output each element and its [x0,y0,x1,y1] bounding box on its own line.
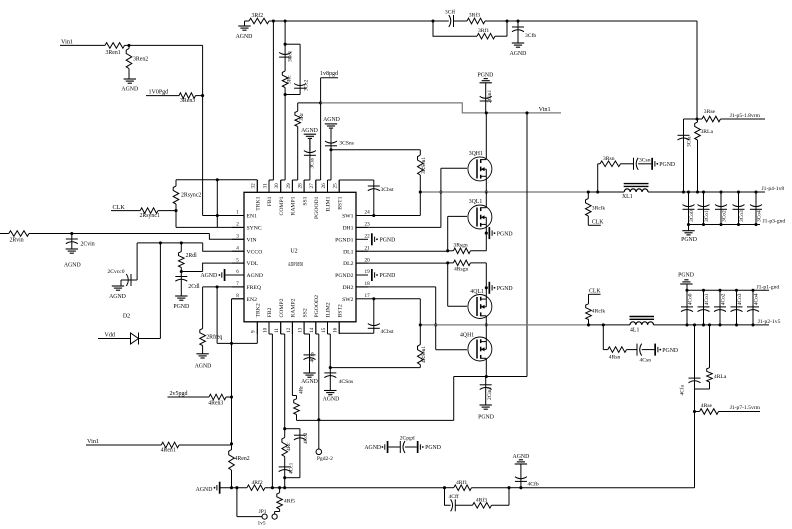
svg-text:3Cc1: 3Cc1 [288,50,294,62]
svg-text:BST1: BST1 [337,196,343,209]
svg-text:4Co1: 4Co1 [704,293,710,305]
ground AGND (3CSns) [323,117,340,139]
svg-text:SW1: SW1 [342,214,354,220]
net label 1V0Pgd [146,90,179,96]
node FB2 riser tap [271,486,274,489]
ground PGND (3Csn) [651,158,675,170]
capacitor 2Cvin [66,234,95,250]
wire output rail 1v8 [648,191,765,193]
wire FB2 rail right [521,487,695,489]
ground AGND (3Rf2) [236,21,253,40]
resistor 4Rsgn [448,260,487,272]
svg-text:J1-p1-gnd: J1-p1-gnd [757,284,780,290]
svg-text:3Rf2: 3Rf2 [252,12,264,19]
node 3Ren3-EN1 [201,94,204,97]
resistor 3Rse [697,109,765,122]
capacitor 4Cff [445,488,473,512]
node EN2 lower [230,442,233,445]
wire DH2 gate [356,287,467,350]
capacitor 4Co0 [681,289,693,327]
svg-text:AGND: AGND [121,87,138,93]
svg-text:10: 10 [262,327,268,333]
svg-text:EN2: EN2 [247,297,258,303]
ground AGND (4Cfb) [513,454,530,464]
svg-text:PGND: PGND [173,304,189,310]
svg-text:PGND: PGND [497,286,513,292]
svg-text:4Cc1: 4Cc1 [288,462,294,474]
svg-text:PGND: PGND [681,237,697,243]
svg-text:3Co1: 3Co1 [704,210,710,222]
wire SW1 line (gray) [420,191,588,193]
node ILIM1 junction [328,148,333,192]
node QL1 PGND tap [485,232,488,235]
ground PGND (2Cdl) [173,296,189,310]
node Vin-x527 [525,111,528,114]
svg-text:2Cin2: 2Cin2 [487,387,493,400]
wire PGOOD1 [316,78,321,193]
svg-text:AGND: AGND [510,51,527,57]
ground AGND (2Cvin) [64,249,81,269]
svg-text:FB1: FB1 [267,196,273,206]
wire FREQ [203,286,244,288]
net label J1-p7-1.5vrm [730,405,761,411]
svg-text:3Rr: 3Rr [299,113,305,121]
svg-text:16: 16 [333,327,339,333]
node 4RLa rail tap [708,323,711,326]
svg-text:DL2: DL2 [343,261,354,267]
ground PGND (output ch1) [681,225,697,243]
net label J1-p5-1.8vrm [730,113,761,119]
resistor 4Rf1 [454,479,509,490]
net label CLK ch1 [592,219,604,225]
svg-text:3Ren2: 3Ren2 [133,56,148,62]
svg-text:27: 27 [309,183,315,189]
svg-text:2Rvin: 2Rvin [10,238,24,244]
svg-text:PGND: PGND [380,238,396,244]
op-amp U2 ADP1850 controller IC [232,180,370,334]
svg-text:3Co2: 3Co2 [721,210,727,222]
svg-text:23: 23 [365,222,371,228]
net label Vdd [98,332,131,338]
ground AGND (3Cfb) [510,43,527,57]
svg-text:24: 24 [365,210,371,216]
svg-text:20: 20 [365,257,371,263]
svg-text:3Co0: 3Co0 [689,210,695,222]
svg-text:PGND: PGND [659,162,675,168]
node snubber1 tap [596,190,599,193]
capacitor 3Co0 [683,190,695,226]
capacitor 3Cff [445,9,467,27]
node snubber2 tap [602,323,605,326]
svg-text:3RLa: 3RLa [701,129,714,135]
wire SW2 pin link [368,299,420,325]
svg-text:5: 5 [236,257,239,263]
svg-text:SS1: SS1 [302,196,308,205]
net label Vin1 [60,39,105,46]
svg-text:3Cfb: 3Cfb [525,32,536,39]
node 2Cin2 tap [485,375,488,378]
node Vin-2Cin1 [485,111,488,114]
node JP1 tap [235,486,238,489]
ground PGND (QL2) [489,282,513,294]
wire FB2 rail [265,487,445,489]
svg-text:FREQ: FREQ [247,285,262,291]
node 4Ren2 bottom [230,486,233,489]
wire VCCO rail [137,243,244,251]
svg-text:SYNC: SYNC [247,226,262,232]
capacitor 3Css [304,139,316,192]
svg-text:DL1: DL1 [343,249,354,255]
svg-text:3: 3 [236,234,239,240]
node 4Cfb tap [519,486,522,489]
node VDL junction [180,270,183,273]
node DL2 junction [446,261,449,264]
net label 2v5pgd [168,391,210,397]
capacitor 4Cbst [339,299,394,335]
wire Vin rail (gray) [321,103,561,113]
net label Vin1 rail [539,106,551,113]
svg-text:J1-p7-1.5vrm: J1-p7-1.5vrm [730,405,761,411]
svg-text:PGND2: PGND2 [335,273,353,279]
wire remote sense top [518,21,697,119]
svg-text:4Cff: 4Cff [449,493,459,500]
resistor 4RLa [707,325,727,389]
svg-text:COMP1: COMP1 [279,196,285,215]
capacitor 3Co1 [698,190,710,226]
svg-text:ILIM1: ILIM1 [326,196,332,211]
wire 4Cfa-4RLa link [695,389,710,412]
wire COMP1 [281,95,285,193]
svg-text:3Rclk: 3Rclk [592,205,606,211]
svg-text:1v5: 1v5 [257,520,265,526]
node SW2 node [485,323,488,326]
svg-text:17: 17 [365,293,371,299]
svg-text:AGND: AGND [513,454,530,460]
resistor 4Rse [695,403,761,414]
svg-text:26: 26 [321,183,327,189]
wire QH1 source [485,176,487,192]
svg-text:ILIM2: ILIM2 [326,302,332,317]
capacitor 3Cfa [678,119,698,192]
svg-text:3RSen1: 3RSen1 [421,157,427,174]
ground AGND (2Cvcc0) [109,286,126,300]
svg-text:PGND: PGND [425,445,441,451]
svg-text:6: 6 [236,269,239,275]
svg-text:7: 7 [236,281,239,287]
svg-text:4Cfa: 4Cfa [678,384,685,395]
ground AGND (4CSns) [323,391,340,403]
svg-text:PGND1: PGND1 [335,237,353,243]
node comp top junction [284,43,287,46]
capacitor 3Cc1 [279,44,294,71]
svg-text:AGND: AGND [236,34,253,40]
resistor 3RSen1 [418,150,427,192]
wire SW1 output [588,191,624,193]
svg-text:FB2: FB2 [267,308,273,318]
svg-text:8: 8 [236,293,239,299]
net label J1-p2-1v5 [758,319,781,325]
resistor 4Rf3 [473,488,510,508]
wire input rail left [0,233,9,235]
svg-text:2Cin1: 2Cin1 [487,90,493,103]
capacitor 4Co1 [698,289,710,327]
svg-text:PGND: PGND [678,273,694,279]
wire QL1 drain [485,192,487,208]
svg-text:9: 9 [251,330,257,333]
wire SW2 output [589,324,631,326]
ground PGND (pin22) [371,233,395,245]
svg-text:AGND: AGND [109,294,126,300]
svg-text:4Co0: 4Co0 [687,293,693,305]
resistor 4Rf5 [275,486,296,514]
svg-text:4Cbst: 4Cbst [381,329,395,335]
resistor 3Rsn [598,156,621,192]
capacitor 2Cin2 [480,377,493,406]
wire QH2 drain link [485,358,487,376]
transistor Q1 (3QH1) [468,151,492,181]
svg-text:U2: U2 [290,248,297,254]
svg-text:3Cbst: 3Cbst [381,187,395,193]
wire QH1 drain [485,113,487,160]
svg-text:19: 19 [365,269,371,275]
node PGOOD2 junction [317,418,320,449]
svg-text:4QL1: 4QL1 [470,289,484,295]
transistor Q4 (4QH1) [460,332,492,361]
capacitor 4Css [304,322,316,373]
svg-text:4Rsgn: 4Rsgn [454,266,469,272]
wire ILIM1 sense [331,149,420,151]
node EN2-TRK2 [230,342,233,345]
svg-text:PGOOD1: PGOOD1 [314,196,320,219]
svg-text:4Ren1: 4Ren1 [161,447,176,453]
svg-text:Vin1: Vin1 [87,438,99,445]
node 3Rclk tap [587,190,590,193]
wire ILIM2 sense [330,367,420,369]
node comp2 bottom junction [283,476,286,488]
svg-text:Vin1: Vin1 [539,106,551,113]
wire Vin drop [526,113,528,377]
svg-text:PGND: PGND [662,348,678,354]
svg-text:4RSen1: 4RSen1 [421,346,427,363]
resistor 3Rsgn [448,242,487,253]
wire SW1 pin link [368,192,420,216]
capacitor 4Cc1 [279,457,295,478]
svg-text:3Cff: 3Cff [445,9,455,16]
capacitor 3CSns [325,139,354,149]
svg-text:4Cfb: 4Cfb [528,480,539,487]
capacitor 3Cfb [512,21,536,43]
node 3Cfa rail tap [682,190,685,193]
resistor 4Ren3 [208,394,231,406]
capacitor 4Co3 [731,289,743,327]
svg-text:2Rdl: 2Rdl [186,253,198,259]
resistor 2Rdl [179,243,198,272]
svg-text:AGND: AGND [323,397,340,403]
svg-text:AGND: AGND [323,117,340,123]
capacitor 4Cfa [678,325,700,396]
svg-text:4Co4: 4Co4 [753,293,759,305]
node comp bottom junction [284,93,287,96]
ground PGND (4Csn) [654,344,678,356]
node comp2 top junction [283,427,286,430]
svg-text:4Rr: 4Rr [298,386,304,394]
wire DL2 [356,262,448,264]
svg-text:Vdd: Vdd [105,332,115,338]
svg-text:4Ren3: 4Ren3 [208,401,223,407]
svg-text:Vin1: Vin1 [61,39,73,46]
node 4Cfa rail tap [693,323,696,326]
capacitor 4Csn [627,344,655,364]
svg-text:3Rc: 3Rc [286,75,292,84]
node 3Cbst-SW1 [372,214,375,217]
svg-text:2Cpgd: 2Cpgd [400,435,415,441]
wire VDL [181,263,244,271]
svg-text:BST2: BST2 [337,304,343,317]
svg-text:2v5pgd: 2v5pgd [170,391,188,397]
wire D2 cathode [139,243,161,339]
resistor 3Rclk [586,192,606,225]
svg-text:AGND: AGND [301,128,318,134]
svg-text:4Cc2: 4Cc2 [303,432,309,444]
node sync junction [174,209,177,212]
diode D2 [123,314,139,345]
wire DH1 gate [356,168,467,227]
svg-text:22: 22 [365,234,371,240]
wire ILIM2 riser [328,322,331,368]
svg-text:13: 13 [298,327,304,333]
svg-text:1v8pgd: 1v8pgd [320,71,338,77]
wire output gnd rail ch2 [687,289,769,291]
wire input rail [29,234,244,240]
svg-text:3QL1: 3QL1 [469,199,483,205]
svg-text:4QH1: 4QH1 [460,332,474,338]
svg-text:VDL: VDL [247,261,259,267]
ground PGND (output ch2) [678,273,694,291]
node SW2-sense [419,323,422,326]
svg-text:4Rf1: 4Rf1 [456,479,467,486]
svg-text:30: 30 [274,183,280,189]
svg-text:4Rf3: 4Rf3 [476,496,487,503]
resistor 4RSen1 [418,325,427,368]
svg-text:3Cc2: 3Cc2 [304,79,310,91]
svg-text:4Rc: 4Rc [286,442,292,451]
svg-text:3Co3: 3Co3 [739,210,745,222]
wire output gnd rail ch1 [689,224,761,226]
wire QH2 source [485,325,487,342]
svg-text:EN1: EN1 [247,214,258,220]
svg-text:1V0Pgd: 1V0Pgd [149,90,169,96]
svg-text:4CSns: 4CSns [339,379,354,385]
wire sense return [694,412,696,488]
resistor 4Ren2 [229,444,250,488]
resistor 3Rc [282,71,292,95]
svg-text:RAMP1: RAMP1 [291,196,297,215]
svg-text:TRK1: TRK1 [256,196,262,210]
wire EN1 vertical [202,45,204,215]
resistor 3Rf3 [467,12,507,24]
node comp2 rail tap [283,486,286,489]
net label J1-p1-gnd [757,284,780,290]
resistor 2Rvin [9,231,29,244]
node VCCO rail 2Rdl [180,241,183,244]
node EN2 upper [230,395,233,398]
resistor 4Rr [292,322,304,421]
resistor 2Rsync1 [140,208,177,219]
node 3Cfb tap [516,19,519,22]
wire COMP2 riser [281,322,285,429]
node 4Rse junction [693,410,696,413]
resistor 3Rr [292,103,320,192]
resistor 3Rf1 [433,21,507,39]
net label Vin1 bottom [86,438,161,445]
svg-text:PGOOD2: PGOOD2 [314,295,320,318]
svg-text:4L1: 4L1 [630,327,639,333]
svg-text:3Rsn: 3Rsn [603,156,615,162]
ground AGND (2Rfreq) [195,354,212,370]
svg-text:J1-p2-1v5: J1-p2-1v5 [758,319,781,325]
wire EN2 [232,299,245,444]
svg-text:3Rf3: 3Rf3 [469,12,480,19]
capacitor 3Cbst [339,180,394,216]
capacitor 2Cvcc0 [107,243,137,286]
resistor 3Ren3 [179,93,203,104]
wire QL2 source [485,263,487,299]
svg-text:Pgd2-2: Pgd2-2 [317,456,333,462]
capacitor 2Cpgd [364,435,441,453]
svg-text:14: 14 [309,327,315,333]
wire QL1 source [485,224,487,250]
svg-text:3CSns: 3CSns [339,141,354,147]
resistor 4Rsn [603,325,626,361]
net label J1-p4-1v8 [762,186,785,192]
svg-text:3Csn: 3Csn [639,157,651,163]
node VCCO rail D2 [159,241,162,244]
svg-text:32: 32 [251,183,257,189]
svg-text:PGND: PGND [380,273,396,279]
svg-text:31: 31 [262,183,268,189]
svg-text:SS2: SS2 [302,308,308,317]
svg-text:XL1: XL1 [622,194,633,200]
wire QH2 drain rail [454,377,527,421]
svg-text:4Rsn: 4Rsn [609,355,621,361]
svg-text:2Rsync1: 2Rsync1 [140,213,160,219]
wire SYNC [176,211,244,228]
svg-text:2Rfreq: 2Rfreq [206,334,222,341]
svg-text:4Rf2: 4Rf2 [252,479,263,486]
svg-text:AGND: AGND [196,487,213,493]
svg-text:1: 1 [236,210,239,216]
wire EN1 to pin1 [203,215,244,217]
wire output rail 1v5 [654,324,770,326]
svg-text:3Rse: 3Rse [704,109,716,115]
svg-text:25: 25 [333,183,339,189]
resistor 3Ren1 [105,43,125,56]
node 3RLa rail tap [696,190,699,193]
wire QL2 drain [485,316,487,325]
svg-text:ADP1850: ADP1850 [288,262,304,268]
svg-text:2Cvin: 2Cvin [81,241,95,247]
svg-text:SW2: SW2 [342,297,354,303]
capacitor 4CSns [324,368,353,391]
capacitor 3Co2 [715,190,727,226]
svg-text:28: 28 [298,183,304,189]
svg-text:VIN: VIN [247,237,257,243]
svg-text:4RLa: 4RLa [714,374,727,380]
svg-text:J1-p4-1v8: J1-p4-1v8 [762,186,785,192]
svg-text:J1-p5-1.8vrm: J1-p5-1.8vrm [730,113,761,119]
resistor 3RLa [695,119,714,192]
ground PGND (QL1) [489,227,513,239]
